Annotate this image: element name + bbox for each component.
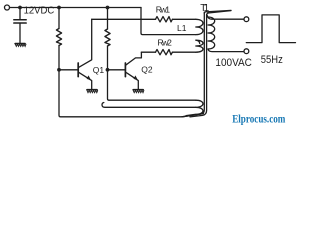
output terminal 2 [244, 49, 249, 54]
wire top rail +12V [10, 7, 141, 9]
svg-text:T1: T1 [200, 3, 209, 14]
wire Q2 collector to Rw2 [141, 51, 155, 53]
winding L1 (top curl) [196, 19, 203, 34]
svg-text:12VDC: 12VDC [24, 5, 55, 16]
ground (Q1 emitter) [87, 90, 98, 93]
node cap junction [18, 6, 22, 10]
ground (capacitor) [15, 44, 26, 47]
wire Q2 base feedback (down inner) [108, 70, 110, 100]
ground (Q2 emitter) [133, 90, 144, 93]
svg-text:L1: L1 [177, 23, 187, 33]
resistor R1 [56, 8, 61, 70]
wire capacitor top [19, 8, 21, 20]
wire bottom return to transformer [182, 114, 204, 117]
wire Rw2 to winding [172, 51, 195, 53]
input terminal [5, 5, 10, 10]
wire secondary top to terminal [207, 15, 244, 19]
svg-text:100VAC: 100VAC [215, 57, 252, 69]
transistor Q1 [59, 19, 92, 89]
winding feedback (bottom) top line [109, 99, 196, 101]
wire secondary bottom to terminal [208, 49, 244, 52]
output terminal 1 [244, 17, 249, 22]
svg-text:Q1: Q1 [93, 65, 105, 75]
svg-text:Elprocus.com: Elprocus.com [232, 113, 286, 125]
winding feedback return line [102, 103, 196, 108]
svg-text:Q2: Q2 [141, 64, 153, 74]
svg-text:Rw2: Rw2 [158, 37, 173, 47]
transistor Q2 [108, 52, 142, 89]
wire capacitor bottom [19, 24, 21, 44]
wire Q1 base feedback (down left side) [59, 70, 182, 117]
capacitor C1 [14, 20, 26, 23]
resistor R2 [105, 8, 110, 70]
wire winding L1 bottom to +12V [141, 8, 196, 35]
node Q1 base [57, 68, 61, 72]
wire Rw1 to winding [172, 18, 195, 20]
transformer T1 core line 1 [182, 12, 204, 117]
winding L2 (curl up) [196, 40, 203, 52]
svg-text:Rw1: Rw1 [156, 5, 171, 15]
svg-text:55Hz: 55Hz [261, 54, 283, 66]
winding feedback curl [186, 100, 203, 115]
transformer T1 core line 2 [190, 15, 207, 117]
node R2 junction [106, 6, 110, 10]
wire Q1 collector to Rw1 [92, 18, 156, 20]
resistor Rw2 [156, 50, 173, 55]
transformer T1 top lead (slant) [204, 10, 231, 13]
node R1 junction [57, 6, 61, 10]
transformer secondary coil [208, 17, 215, 49]
resistor Rw1 [156, 17, 173, 22]
node Q2 base [106, 68, 110, 72]
waveform square wave [246, 15, 295, 43]
